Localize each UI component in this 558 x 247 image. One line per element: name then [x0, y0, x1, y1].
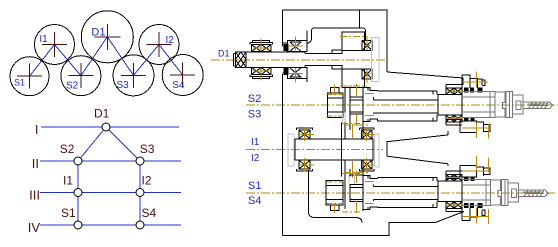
S1S4 nose block: [438, 181, 462, 202]
S2S3 hub: [350, 97, 363, 114]
S1S4 hub caps: [363, 176, 377, 210]
housing arm slant upper spindle bottom: [447, 131, 449, 135]
svg-text:IV: IV: [28, 220, 41, 235]
svg-text:III: III: [29, 188, 40, 203]
svg-text:S1: S1: [248, 180, 261, 192]
center cross S1: [17, 64, 42, 89]
svg-text:D1: D1: [91, 27, 105, 39]
centerlines: [211, 60, 558, 193]
gear circle S1: [10, 57, 49, 96]
S2S3 small centerline marks: [327, 72, 490, 139]
svg-text:II: II: [32, 156, 39, 171]
S2S3 top pin cluster: [462, 75, 485, 88]
housing bottom edge: [282, 212, 464, 236]
node I1: [74, 189, 82, 197]
D1 wall step: [282, 46, 286, 73]
D1 boss edge vertical: [302, 31, 307, 83]
edge D1-S2: [78, 127, 106, 161]
gear circle S3: [113, 55, 154, 96]
gear circle S4: [162, 55, 203, 96]
mesh line S1-I1-S2-D1-S3-I2-S4: [30, 37, 183, 76]
S1S4 barrel: [374, 178, 438, 208]
I right bearing bottom: [362, 160, 373, 169]
center cross I2: [147, 32, 172, 57]
housing top-right slant to spindle arm: [387, 72, 463, 85]
D1 bearing A caps: [250, 41, 272, 79]
S2S3 top bolt left gear: [330, 88, 339, 94]
S2S3 hub caps: [363, 88, 377, 122]
D1 bearing B boss bottom: [288, 67, 308, 78]
node S4: [136, 221, 144, 229]
svg-text:S2: S2: [66, 81, 79, 92]
housing outline: [282, 10, 464, 236]
I left bearing top: [299, 130, 310, 139]
D1 bearing B boss top: [288, 41, 308, 52]
housing inner top contour: [282, 28, 365, 43]
S1S4 top cluster: [446, 166, 490, 179]
center cross S4: [170, 63, 195, 88]
I shaft step: [341, 139, 343, 160]
level line II: [40, 160, 181, 162]
S1S4 small centerline marks: [327, 156, 490, 224]
S1S4 gray sleeve: [463, 179, 549, 205]
S1S4 nose bearing top: [446, 174, 454, 181]
centerline S2/S3: [246, 104, 558, 106]
S2S3 barrel: [374, 91, 438, 121]
S2S3 chuck ring: [495, 92, 506, 117]
svg-text:S1: S1: [61, 206, 76, 220]
S1S4 chuck body: [508, 183, 518, 202]
center cross S2: [68, 63, 93, 88]
S2S3 gray sleeve: [463, 91, 553, 117]
svg-text:I: I: [35, 122, 39, 137]
D1 bearing A bottom: [251, 67, 261, 74]
D1 right bearing bottom: [362, 69, 372, 79]
svg-text:I1: I1: [63, 174, 73, 188]
S2S3 nose bearing caps: [446, 85, 462, 125]
S2S3 chuck nut rings: [506, 91, 510, 117]
D1 gear pitch marks: [253, 36, 370, 86]
drill S1S4: [519, 190, 549, 197]
D1 shaft body: [246, 52, 342, 68]
gear column below I shaft: [342, 160, 363, 176]
gear circle D1: [81, 11, 133, 63]
S2S3 nose bearing bottom: [446, 115, 454, 122]
D1 input end collar: [234, 52, 236, 68]
drill S2S3: [523, 102, 553, 109]
D1 seal B bottom: [284, 69, 288, 75]
S1S4 chuck nut rings: [501, 179, 505, 205]
svg-text:S3: S3: [140, 142, 155, 156]
D1 shaft collar before gear: [332, 50, 342, 69]
svg-text:I1: I1: [39, 34, 48, 45]
centerline I1/I2: [246, 149, 383, 151]
I shaft body: [295, 139, 373, 160]
S2S3 nose bearing top: [446, 88, 454, 95]
S1S4 ghost gray: [349, 175, 355, 184]
S1S4 nose bearing caps: [446, 171, 462, 211]
svg-text:D1: D1: [94, 107, 110, 121]
edge S2-I1-S1: [77, 161, 79, 225]
node S3: [136, 157, 144, 165]
D1 input hatched square: [236, 52, 247, 68]
S1S4 nose bearing bottom: [446, 202, 454, 209]
S2S3 chuck body: [513, 95, 523, 114]
edge D1-S3: [106, 127, 140, 161]
housing top cavity wall: [359, 10, 361, 28]
svg-text:S2: S2: [60, 142, 75, 156]
S1S4 hub: [350, 184, 363, 201]
housing inner bottom contour: [308, 170, 362, 223]
svg-text:I2: I2: [142, 174, 152, 188]
svg-text:S3: S3: [248, 108, 261, 120]
S2S3 nose block: [438, 94, 462, 115]
S1S4 chuck ring: [490, 180, 501, 205]
gear circle S2: [61, 56, 101, 96]
S1S4 left gear: [326, 181, 343, 206]
node I2: [136, 189, 144, 197]
svg-text:I2: I2: [166, 35, 175, 46]
I right bearing caps: [360, 128, 375, 171]
node S1: [74, 221, 82, 229]
centerline D1: [211, 59, 385, 61]
housing wedge at I level: [387, 135, 448, 164]
svg-text:S4: S4: [172, 80, 185, 91]
gear circle I1: [35, 25, 75, 65]
S1S4 bottom pin cluster: [462, 208, 485, 221]
I shaft ghost gears: [288, 134, 379, 167]
D1 seal B top: [284, 45, 288, 51]
center cross S3: [121, 63, 146, 88]
I gear pitch marks: [300, 124, 374, 178]
S1S4 bottom bolt left gear: [330, 205, 339, 211]
center cross D1: [94, 24, 120, 50]
gear circle I2: [139, 25, 179, 65]
housing mid wall pair: [345, 88, 350, 210]
D1 bearing A top: [251, 45, 261, 52]
D1 gear hub: [342, 32, 365, 50]
D1 right bearing top: [362, 41, 372, 51]
level line I: [41, 126, 179, 128]
housing top block: [282, 10, 387, 236]
center cross I1: [42, 32, 67, 57]
gear column above I shaft: [342, 123, 363, 139]
housing arm slant lower spindle top: [447, 164, 449, 166]
svg-text:S1: S1: [14, 78, 25, 88]
S2S3 left gear: [328, 93, 344, 118]
svg-text:S2: S2: [248, 93, 261, 105]
level line III: [40, 192, 181, 194]
svg-text:S4: S4: [248, 195, 261, 207]
I right bearing top: [362, 130, 373, 139]
svg-text:S3: S3: [117, 80, 130, 91]
centerline S1/S4: [246, 192, 557, 194]
edge S3-I2-S4: [139, 161, 141, 225]
S2S3 ghost gray: [343, 113, 345, 123]
level line IV: [40, 224, 181, 226]
I left bearing caps: [297, 128, 313, 171]
node S2: [74, 157, 82, 165]
node D1: [102, 123, 110, 131]
svg-text:I1: I1: [251, 137, 260, 148]
D1 gear ghost (gray): [372, 38, 379, 82]
I left bearing bottom: [299, 160, 310, 169]
svg-text:I2: I2: [251, 153, 260, 164]
S2S3 bottom cluster: [446, 120, 490, 133]
svg-text:S4: S4: [142, 206, 157, 220]
svg-text:D1: D1: [218, 49, 230, 59]
